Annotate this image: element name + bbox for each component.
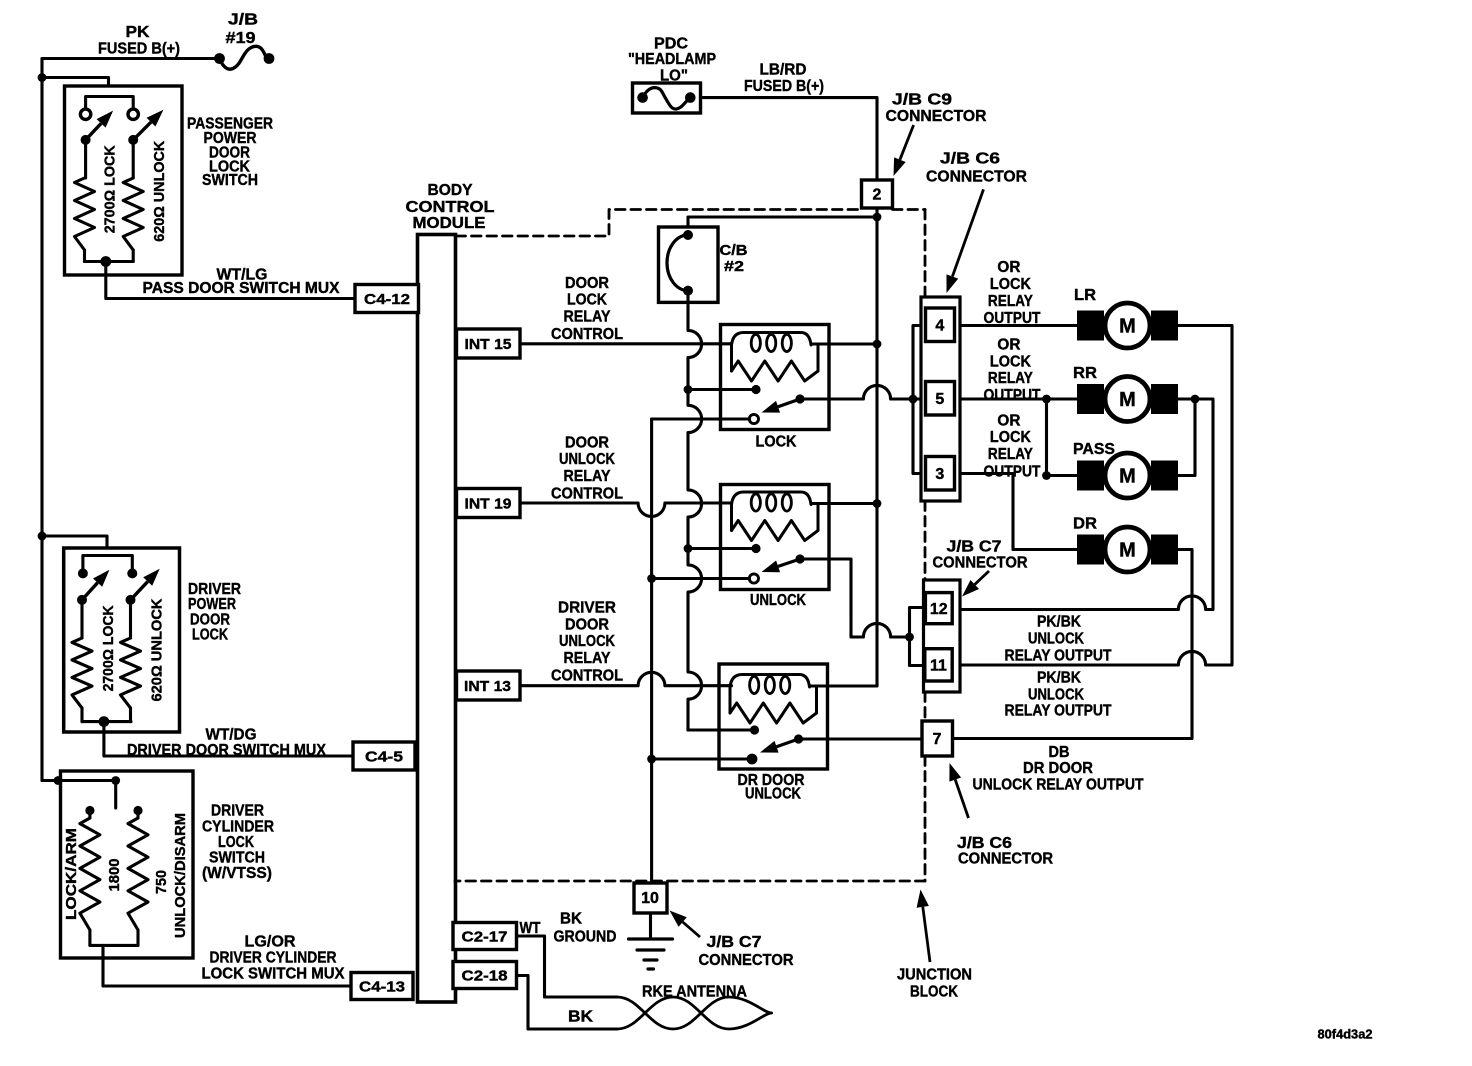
svg-text:RR: RR [1073,365,1097,382]
connector block J/B C7 outline [924,580,961,692]
svg-text:C2-18: C2-18 [462,967,508,984]
svg-text:DR DOOR: DR DOOR [1023,760,1093,777]
label: 620ohm UNLOCK driver (vertical) [148,598,165,701]
svg-text:UNLOCK/DISARM: UNLOCK/DISARM [172,813,189,938]
svg-text:4: 4 [935,318,944,335]
svg-text:DRIVER: DRIVER [211,803,264,820]
wire: pin 5 to RR motor [960,397,1077,400]
svg-text:CONTROL: CONTROL [406,199,495,216]
label: BK (ground) [560,911,582,928]
label: LOCK [209,159,250,176]
svg-text:DB: DB [1049,744,1070,761]
label: 1800 (vertical) [106,859,123,892]
wire: dr relay contact to ground rail [652,757,748,760]
svg-text:WT/DG: WT/DG [206,727,257,744]
svg-text:CONNECTOR: CONNECTOR [699,952,794,969]
label: CONNECTOR (J/B C9) [886,108,987,125]
label: PDC [654,36,688,53]
svg-text:DRIVER DOOR SWITCH MUX: DRIVER DOOR SWITCH MUX [127,742,326,759]
svg-text:J/B C6: J/B C6 [957,835,1012,852]
svg-text:BLOCK: BLOCK [910,984,958,1001]
connector J/B C9 pin 2 [862,180,893,208]
svg-text:11: 11 [930,658,947,675]
svg-text:UNLOCK: UNLOCK [750,592,806,609]
body control module bar [418,235,456,1003]
svg-text:CONNECTOR: CONNECTOR [933,555,1028,572]
arrow to J/B C7 connector [962,571,989,597]
resistor 620 ohm (driver unlock) [121,600,141,722]
svg-text:J/B C7: J/B C7 [947,539,1002,556]
label: RELAY OUTPUT (1) [1005,648,1112,665]
label: WT [520,920,541,937]
fuse PDC HEADLAMP LO [633,83,701,113]
label: DRIVER (dr ctl) [558,600,616,617]
switch arm: driver lock [82,570,109,600]
label: DOOR (lock ctl) [565,275,609,292]
label: PK/BK (2) [1037,670,1081,687]
label: UNLOCK (DR relay) [745,785,801,802]
label: J/B C6 top [940,151,1000,168]
node: driver unlock terminal [127,568,137,578]
motor RR [1077,377,1178,422]
wire: door lock relay control INT 15 to coil [520,342,732,345]
label: FUSED B(+) [98,41,180,58]
svg-text:M: M [1119,466,1136,488]
label: RELAY (2) [988,370,1033,387]
connector C4-5 [353,742,415,770]
svg-text:#19: #19 [226,30,256,47]
svg-text:12: 12 [930,601,948,618]
label: BODY [428,182,473,199]
pin 4 [926,308,955,342]
wire: driver switch bottom join [82,720,131,723]
label: RELAY OUTPUT (2) [1005,703,1112,720]
svg-text:RELAY: RELAY [564,309,611,326]
wire: DR motor return to pin 7 [953,550,1193,739]
svg-text:UNLOCK: UNLOCK [559,633,615,650]
label: UNLOCK (dr ctl) [559,633,615,650]
svg-text:2700Ω LOCK: 2700Ω LOCK [101,145,118,233]
svg-text:C4-5: C4-5 [365,748,403,765]
junction block dashed boundary [455,210,925,882]
label: 620ohm UNLOCK (vertical) [151,141,168,242]
wire: OR lock relay output to pin 5 [800,385,926,399]
svg-text:JUNCTION: JUNCTION [897,967,972,984]
connector C4-12 [355,285,419,313]
label: OUTPUT (2) [984,387,1041,404]
svg-text:UNLOCK RELAY OUTPUT: UNLOCK RELAY OUTPUT [973,777,1144,794]
label: LOCK [192,627,228,644]
svg-text:FUSED B(+): FUSED B(+) [744,78,824,95]
passenger power door lock switch box [65,86,183,275]
label: DR [1073,515,1097,532]
label: DOOR [190,612,230,629]
svg-text:SWITCH: SWITCH [202,172,258,189]
label: OR (1) [997,259,1020,276]
svg-text:POWER: POWER [188,596,236,613]
label: CONNECTOR (C6 top) [926,169,1027,186]
svg-text:DOOR: DOOR [565,617,609,634]
wire: unlock relay coil to B+ bus [829,502,878,505]
node: rail junction to driver switch [38,532,47,541]
wire: C/B #2 output vertical with hops [688,291,702,730]
label: RELAY (3) [988,446,1033,463]
pin INT 13 [457,671,521,700]
svg-text:(W/VTSS): (W/VTSS) [202,865,272,882]
svg-text:CONNECTOR: CONNECTOR [926,169,1027,186]
svg-text:PK/BK: PK/BK [1037,670,1081,687]
svg-text:2: 2 [873,187,882,204]
pin INT 19 [457,489,521,518]
pin 7 [922,721,953,756]
label: #2 [724,259,744,275]
svg-text:DOOR: DOOR [565,275,609,292]
relay: LOCK [721,325,830,430]
label: POWER [188,596,236,613]
svg-text:LOCK SWITCH MUX: LOCK SWITCH MUX [202,966,345,983]
svg-text:C4-12: C4-12 [364,291,410,308]
wire: pin 10 to ground [649,913,652,939]
svg-text:RKE ANTENNA: RKE ANTENNA [642,984,747,1001]
wire: B(+) vertical bus from pin 2 [688,208,877,686]
node: passenger unlock terminal [128,109,138,119]
node: passenger unlock wiper [128,135,138,145]
wire: dr relay coil to B+ bus [828,684,878,687]
wire: ground rail from lock relay contact [652,419,750,883]
pin 10 [634,883,667,913]
svg-text:UNLOCK: UNLOCK [745,785,801,802]
svg-text:M: M [1119,389,1136,411]
label: CONTROL (unlock ctl) [551,485,623,502]
svg-text:750: 750 [153,870,170,894]
svg-text:5: 5 [935,391,944,408]
svg-text:LOCK: LOCK [192,627,228,644]
label: J/B C7 upper [947,539,1002,556]
label: BLOCK [910,984,958,1001]
label: UNLOCK relay [750,592,806,609]
svg-text:LB/RD: LB/RD [760,62,807,79]
svg-text:C2-17: C2-17 [462,928,508,945]
svg-text:J/B C7: J/B C7 [707,934,762,951]
svg-text:LOCK: LOCK [990,276,1031,293]
wire: common feed lock relay [688,388,756,391]
svg-text:WT: WT [520,920,541,937]
label: diagram code [1318,1027,1373,1042]
node: lock output bracket junction [909,395,918,404]
label: PASS [1073,441,1115,458]
label: OR (3) [997,412,1020,429]
wire: passenger switch bottom join [85,260,134,263]
svg-text:LOCK: LOCK [567,292,607,309]
label: UNLOCK (unlock ctl) [559,451,615,468]
resistor 2700 ohm (passenger lock) [75,140,95,262]
label: PASS DOOR SWITCH MUX [143,280,340,297]
label: 750 (vertical) [153,870,170,894]
node: ground rail tee (dr) [647,755,656,764]
svg-text:FUSED B(+): FUSED B(+) [98,41,180,58]
label: RKE ANTENNA [642,984,747,1001]
label: SWITCH (cylinder) [209,850,265,867]
node: driver lock terminal [78,568,88,578]
svg-text:LOCK: LOCK [990,429,1031,446]
wire: tee down to PASS motor [1047,399,1078,476]
label: LOCK (cylinder) [218,834,254,851]
wire: common feed unlock relay [688,547,756,550]
wire: door unlock relay control INT 19 to coil [520,503,732,516]
wire: bracket to pins 12 and 11 [910,608,926,666]
connector block J/B C6 outline [921,297,960,501]
svg-text:PASS: PASS [1073,441,1115,458]
svg-text:OUTPUT: OUTPUT [984,387,1041,404]
wire: driver switch split bus [83,556,132,574]
relay: UNLOCK [721,485,830,590]
pin C2-17 [453,923,517,950]
wire: LG/OR cylinder mux to C4-13 [103,945,351,986]
wire: WT from C2-17 [517,936,618,997]
svg-text:RELAY OUTPUT: RELAY OUTPUT [1005,703,1112,720]
label: LOCK relay [756,433,797,450]
label: WT/DG [206,727,257,744]
node: RR return junction [1191,395,1200,404]
wire: rail to passenger switch entry [42,78,109,97]
wire: BK from C2-18 [517,976,618,1030]
svg-text:DOOR: DOOR [565,434,609,451]
label: LOCK (3) [990,429,1031,446]
label: LOCK (2) [990,354,1031,371]
label: LO [660,68,688,85]
svg-text:SWITCH: SWITCH [209,850,265,867]
label: PK [126,24,150,41]
svg-text:OR: OR [997,412,1020,429]
label: JUNCTION [897,967,972,984]
svg-text:RELAY: RELAY [564,650,611,667]
label: DRIVER (cylinder) [211,803,264,820]
label: DR DOOR (db) [1023,760,1093,777]
wire: LR motor return to pin 11 [960,326,1232,666]
driver cylinder lock switch box [61,771,194,958]
node: rail junction to passenger switch [38,73,47,82]
label: (W/VTSS) [202,865,272,882]
label: J/B C7 bottom [707,934,762,951]
arrow to J/B C6 connector [947,189,984,293]
svg-text:CONTROL: CONTROL [551,485,623,502]
node: driver mux junction [99,716,110,727]
label: J/B C6 bottom [957,835,1012,852]
RKE antenna twisted pair [617,997,772,1029]
svg-text:RELAY: RELAY [988,446,1033,463]
label: DRIVER DOOR SWITCH MUX [127,742,326,759]
label: MODULE [413,215,486,232]
node: cylinder feed at box edge [54,776,63,785]
svg-text:LOCK: LOCK [756,433,797,450]
wire: lock relay coil to B+ bus [829,342,878,345]
svg-text:INT 19: INT 19 [465,495,512,512]
wire: rail to cylinder switch pole [42,781,116,809]
label: RELAY (lock ctl) [564,309,611,326]
label: 2700ohm LOCK (vertical) [101,145,118,233]
svg-text:INT 15: INT 15 [465,336,512,353]
svg-text:RELAY: RELAY [564,468,611,485]
svg-text:LOCK: LOCK [218,834,254,851]
label: J/B [228,12,258,29]
svg-text:LO": LO" [660,68,688,85]
svg-text:BK: BK [568,1009,593,1026]
node: PASS feed junction [1042,471,1051,480]
svg-text:CONTROL: CONTROL [551,668,623,685]
svg-text:620Ω UNLOCK: 620Ω UNLOCK [148,598,165,701]
switch arm: passenger lock [86,111,114,140]
resistor 750 (unlock/disarm) [128,811,148,946]
node: lock out tee [1042,395,1051,404]
svg-text:J/B: J/B [228,12,258,29]
svg-text:RELAY OUTPUT: RELAY OUTPUT [1005,648,1112,665]
wire: pin 3 to DR motor [960,474,1077,550]
wire: passenger switch split bus [86,97,134,115]
wire: bracket to pins 4 and 3 [913,326,926,474]
wire: left vertical power rail [40,59,43,781]
pin 3 [926,457,955,491]
label: OUTPUT (1) [984,310,1041,327]
wire: LB/RD fused B(+) to J/B C9 pin 2 [701,98,878,180]
node: ground rail tee (unlock) [647,574,656,583]
svg-text:BODY: BODY [428,182,473,199]
label: CONTROL (dr ctl) [551,668,623,685]
svg-text:INT 13: INT 13 [464,678,511,695]
label: UNLOCK/DISARM (vertical) [172,813,189,938]
label: UNLOCK (pkbk2) [1028,687,1084,704]
wire: PASS motor return join [1178,399,1195,476]
svg-text:CONNECTOR: CONNECTOR [958,851,1053,868]
svg-text:J/B C6: J/B C6 [940,151,1000,168]
node: cylinder lock/arm contact [85,806,94,815]
svg-text:3: 3 [935,466,944,483]
label: RR [1073,365,1097,382]
label: RELAY (1) [988,293,1033,310]
label: OUTPUT (3) [984,463,1041,480]
node: bus tee at pin 2 [873,213,882,222]
node: cylinder unlock/disarm contact [133,806,142,815]
wire: driver door unlock relay control INT 13 to coil [520,672,732,685]
node: driver unlock wiper [126,595,136,605]
svg-text:#2: #2 [724,259,744,275]
svg-text:C/B: C/B [720,243,748,259]
label: DOOR [209,144,250,161]
switch arm: driver unlock [131,569,160,600]
label: PK/BK (1) [1037,614,1081,631]
pin C2-18 [453,962,517,989]
label: DOOR (dr ctl) [565,617,609,634]
svg-text:7: 7 [933,731,942,748]
svg-text:LG/OR: LG/OR [245,934,296,951]
svg-text:CONTROL: CONTROL [551,326,623,343]
label: RELAY (unlock ctl) [564,468,611,485]
label: DB [1049,744,1070,761]
svg-text:BK: BK [560,911,582,928]
label: DRIVER [188,581,241,598]
node: passenger lock wiper [81,135,91,145]
label: J/B C9 [892,92,952,109]
label: LR [1074,287,1096,304]
wire: WT/DG driver door switch mux to C4-5 [104,722,353,756]
svg-text:OR: OR [997,337,1020,354]
label: RELAY (dr ctl) [564,650,611,667]
svg-text:1800: 1800 [106,859,123,892]
label: CONNECTOR (C7 upper) [933,555,1028,572]
pin 11 [925,649,952,681]
svg-text:LOCK/ARM: LOCK/ARM [63,828,80,920]
pin INT 15 [457,329,521,358]
label: WT/LG [217,267,268,284]
label: 2700ohm LOCK driver (vertical) [100,605,117,691]
node: driver lock wiper [77,595,87,605]
motor PASS [1077,453,1178,498]
node: C/B output to unlock relay common [684,544,693,553]
fusible link J/B #19 [214,46,274,69]
wire: dr relay output to pin 7 [799,737,922,740]
svg-text:PASS DOOR SWITCH MUX: PASS DOOR SWITCH MUX [143,280,340,297]
label: DR DOOR [738,772,805,789]
label: GROUND [554,929,617,946]
svg-text:RELAY: RELAY [988,370,1033,387]
node: C/B output to lock relay common [684,385,693,394]
pin 12 [925,593,952,624]
motor DR [1077,527,1178,572]
node: passenger mux junction [100,256,111,267]
wire: unlock relay contact to ground rail [652,577,750,580]
svg-text:CONNECTOR: CONNECTOR [886,108,987,125]
svg-text:CYLINDER: CYLINDER [202,819,274,836]
wire: rail to driver switch entry [42,536,107,556]
wire: WT/LG pass door switch mux to C4-12 [106,262,355,299]
arrow to pin 7 (J/B C6) [949,763,968,818]
arrow to J/B C9 connector [894,125,914,176]
svg-text:80f4d3a2: 80f4d3a2 [1318,1027,1373,1042]
connector C4-13 [351,973,413,1000]
svg-text:PK: PK [126,24,150,41]
svg-text:C4-13: C4-13 [359,978,405,995]
motor LR [1077,303,1178,348]
wire: pin 4 to LR motor [960,324,1077,327]
label: BK (antenna) [568,1009,593,1026]
svg-text:PK/BK: PK/BK [1037,614,1081,631]
wire: unlock relay output to 12/11 bracket [800,559,910,637]
label: CYLINDER [202,819,274,836]
svg-text:DR: DR [1073,515,1097,532]
driver power door lock box [64,548,180,732]
svg-text:UNLOCK: UNLOCK [1028,687,1084,704]
resistor 1800 (lock/arm) [80,811,100,946]
wire: common feed dr relay [688,728,755,731]
svg-text:PDC: PDC [654,36,688,53]
label: LOCK SWITCH MUX [202,966,345,983]
label: CONTROL [406,199,495,216]
label: DRIVER CYLINDER [210,950,337,967]
label: LOCK (1) [990,276,1031,293]
label: LOCK (lock ctl) [567,292,607,309]
circuit breaker C/B #2 [659,227,719,302]
label: LG/OR [245,934,296,951]
label: DOOR (unlock ctl) [565,434,609,451]
node: unlock coil bus junction [873,499,882,508]
svg-text:DRIVER CYLINDER: DRIVER CYLINDER [210,950,337,967]
resistor 620 ohm (passenger unlock) [123,140,143,262]
label: LB/RD [760,62,807,79]
arrow to junction block [917,890,930,963]
label: LOCK/ARM (vertical) [63,828,80,920]
label: CONTROL (lock ctl) [551,326,623,343]
svg-text:LR: LR [1074,287,1096,304]
label: HEADLAMP [628,51,716,68]
